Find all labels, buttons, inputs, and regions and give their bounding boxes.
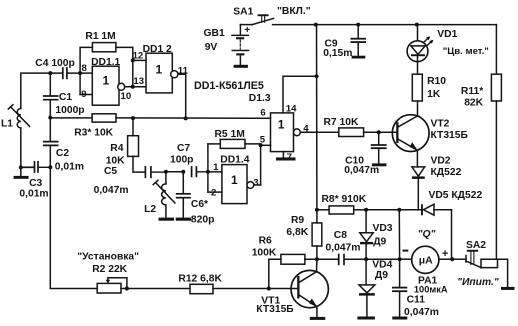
svg-text:C4 100p: C4 100p [35,58,75,69]
ground under VD4 [357,317,375,320]
svg-text:"Q": "Q" [418,229,436,240]
svg-text:1K: 1K [427,89,441,100]
wire pin 4 to R7 [300,131,339,133]
diode VD3 [360,233,373,259]
svg-text:1: 1 [103,74,110,88]
capacitor C2 [44,118,58,168]
resistor R9 [312,210,322,259]
wire pins 8-9 tie [80,73,92,94]
capacitor C7 [192,167,208,176]
diode VD2 [412,167,425,210]
svg-text:0,047m: 0,047m [344,165,379,176]
svg-text:R8* 910K: R8* 910K [322,194,367,205]
svg-text:820p: 820p [191,214,214,225]
wire meter minus lead [400,258,412,260]
svg-text:DD1-К561ЛЕ5: DD1-К561ЛЕ5 [194,80,264,92]
svg-text:R2 22K: R2 22K [92,264,127,275]
svg-text:1: 1 [231,173,238,187]
ground pin 7 [276,152,296,161]
wire R12 to VT1 base [213,288,297,290]
wire right rail below R11 [495,101,497,259]
resistor R10 [412,62,422,116]
svg-text:КТ315Б: КТ315Б [256,304,294,315]
resistor R7 [339,128,364,137]
resistor R11 [491,74,501,101]
svg-text:1: 1 [278,117,285,131]
wire meter minus vertical [398,210,400,259]
ground under C9 [352,56,366,59]
label minus [403,250,409,252]
svg-text:VD3: VD3 [373,223,393,234]
node R6 bottom [267,286,271,290]
wire VT2 emitter to VD2 [416,150,418,167]
svg-text:"Ипит.": "Ипит." [457,277,499,288]
wire VT1 collector [316,259,318,272]
svg-text:VD1: VD1 [437,29,457,40]
node rail C9 [356,23,360,27]
svg-text:0,01m: 0,01m [55,162,84,173]
capacitor C1 [44,73,58,118]
svg-text:14: 14 [286,104,297,115]
wire oscillator bus [50,117,270,119]
capacitor C8 [317,255,366,265]
wire top-left horizontal C4 row [21,73,62,108]
ground under C3 left [14,167,29,178]
svg-text:Д9: Д9 [373,237,386,248]
wire C4 right to pin8 node [68,72,93,74]
svg-text:100p: 100p [170,155,193,166]
resistor R6 [269,254,317,288]
node rail R8 branch [314,23,318,27]
wire detector node [366,209,421,211]
svg-text:100мкА: 100мкА [414,284,448,294]
node C10 top [377,130,381,134]
svg-text:6: 6 [260,108,265,119]
svg-text:КД522: КД522 [431,167,462,178]
node pin5 junction [259,143,263,147]
svg-text:DD1 2: DD1 2 [143,44,172,55]
svg-text:0,15m: 0,15m [323,48,352,59]
node C1 top junction [48,71,52,75]
svg-text:μA: μA [419,256,433,267]
capacitor C4 [63,68,67,78]
resistor R3 [92,114,116,122]
svg-text:+: + [244,25,250,36]
svg-text:0,047m: 0,047m [94,185,129,196]
wire DD1.2 output down to bus [178,74,186,118]
svg-text:КТ315Б: КТ315Б [431,130,469,141]
op-amp gate DD1.3 [271,113,301,152]
wire pins 1-2 tie [208,144,222,192]
switch SA1 [240,14,273,24]
wire L2 to C6 [166,171,183,173]
svg-text:C5: C5 [104,166,117,177]
svg-text:10K: 10K [106,155,125,166]
wire VT1 emitter [316,307,318,317]
wire L1 bottom to C3 node [20,128,22,167]
svg-text:DD1.4: DD1.4 [220,154,249,165]
svg-text:VD5 КД522: VD5 КД522 [429,190,483,201]
svg-text:0,047m: 0,047m [326,243,361,254]
svg-text:+: + [442,248,448,260]
svg-text:R6: R6 [259,235,272,246]
meter PA1 [412,246,439,273]
svg-text:GB1: GB1 [204,28,225,39]
svg-text:13: 13 [133,76,144,87]
svg-text:1: 1 [213,162,219,173]
capacitor C6 [177,172,190,218]
svg-text:6,8K: 6,8K [286,227,308,238]
node meter minus [398,257,402,261]
svg-text:"Цв. мет.": "Цв. мет." [443,46,489,57]
ground under C11 [392,317,407,320]
resistor R1 [80,43,133,74]
capacitor C9 [351,25,365,56]
capacitor C11 [393,259,407,316]
node C6 top [181,170,185,174]
svg-text:SA2: SA2 [466,240,486,251]
svg-text:R3* 10K: R3* 10K [74,127,113,138]
ground under SA2 [501,287,515,290]
svg-text:R5 1M: R5 1M [215,129,245,140]
ground under L2 [159,218,175,221]
svg-text:C6*: C6* [191,199,208,210]
transistor VT1 [291,270,328,307]
transistor VT2 [392,115,429,152]
svg-text:C2: C2 [56,148,69,159]
node C1 bottom / bus left [48,116,52,120]
svg-text:R12 6,8K: R12 6,8K [178,273,222,284]
ground under GB1 [234,65,248,68]
wire C8 node to meter [366,258,400,260]
op-amp gate DD1.2 [146,53,178,93]
wire R7 to VT2 base [364,131,397,133]
op-amp gate DD1.1 [92,66,124,105]
node meter minus branch [397,208,401,212]
svg-text:R11*: R11* [461,86,483,97]
wire DD1.1 out to DD1.2 in [125,86,146,88]
svg-text:82K: 82K [464,98,483,109]
node meter plus [450,257,454,261]
capacitor C10 [372,132,386,163]
op-amp gate DD1.4 [222,165,254,204]
resistor R5 [208,139,261,185]
svg-text:C3: C3 [29,178,42,189]
svg-text:VT2: VT2 [431,119,450,130]
node C3 left [19,165,23,169]
node R8 left [315,208,319,212]
capacitor C3 [21,162,51,172]
wire pin12 vertical tie [133,60,146,86]
wire DD1.4 out up to pin5 [254,184,261,186]
svg-text:9: 9 [81,89,86,100]
diode VD5 [421,204,452,259]
svg-text:100K: 100K [252,248,277,259]
wire right rail down [495,25,497,75]
svg-text:Д9: Д9 [375,270,388,281]
svg-text:R9: R9 [291,215,304,226]
svg-text:DD1.1: DD1.1 [91,57,120,68]
potentiometer R2 [97,278,127,293]
node L2 top [164,170,168,174]
node C8 right / VD4 top [364,257,368,261]
capacitor C5 [145,167,166,177]
svg-text:SA1: SA1 [233,6,253,17]
svg-text:"Установка": "Установка" [77,252,139,263]
wire bottom row to R12 [121,288,190,290]
ground under VT1 [310,317,326,320]
switch SA2 [452,250,507,287]
svg-text:9V: 9V [205,42,218,53]
svg-text:C11: C11 [407,294,426,305]
LED VD1 [407,25,433,62]
node C3 right / column [48,165,52,169]
svg-text:2: 2 [211,187,216,198]
wire pin5 stub [261,144,271,146]
node main bias junction [315,257,319,261]
node pin12 junction [131,58,135,62]
node pin14 tie [315,74,319,78]
wire meter plus lead [439,258,452,260]
svg-text:C8: C8 [334,230,347,241]
svg-text:0,01m: 0,01m [19,189,48,200]
svg-text:R1 1M: R1 1M [85,31,115,42]
svg-text:0,047m: 0,047m [404,307,439,318]
diode VD4 [359,259,375,316]
svg-text:D1.3: D1.3 [249,93,271,104]
wire VD3 chain [365,210,367,233]
wire pin 14 to +9V branch [283,76,317,113]
node pin13 junction [131,85,135,89]
resistor R4 [128,118,145,172]
node DD1.4 input [206,170,210,174]
wire rail branch down to R8/R9 [316,25,318,210]
battery GB1 [231,25,249,65]
svg-text:10: 10 [121,91,132,102]
svg-text:8: 8 [82,63,88,74]
wire +9V top rail [273,24,497,26]
resistor R12 [190,284,213,293]
resistor R8 [317,206,366,214]
svg-text:L2: L2 [144,204,156,215]
svg-text:3: 3 [253,177,258,188]
svg-text:R4: R4 [110,143,123,154]
svg-text:1000p: 1000p [55,105,84,116]
node R4 top [131,116,135,120]
svg-text:L1: L1 [1,118,13,129]
node VD3 top [364,208,368,212]
svg-text:5: 5 [260,134,266,145]
svg-text:C7: C7 [177,143,190,154]
wire left column down to bottom row [50,167,97,288]
svg-text:"ВКЛ.": "ВКЛ." [277,6,311,17]
svg-text:VD4: VD4 [372,260,392,271]
ground under C6 [176,218,192,221]
ground under C10 [372,163,387,166]
node R2 right [125,286,129,290]
svg-text:1: 1 [156,63,163,77]
svg-text:7: 7 [287,152,292,163]
node DD1.2 out on bus [184,116,188,120]
node rail VD1 [415,23,419,27]
svg-text:VD2: VD2 [431,156,451,167]
svg-text:C1: C1 [59,92,72,103]
node pin8 junction [78,71,82,75]
svg-text:R7 10K: R7 10K [324,117,359,128]
inductor L1 [8,105,29,128]
inductor L2 [153,172,175,218]
svg-text:R10: R10 [427,76,446,87]
